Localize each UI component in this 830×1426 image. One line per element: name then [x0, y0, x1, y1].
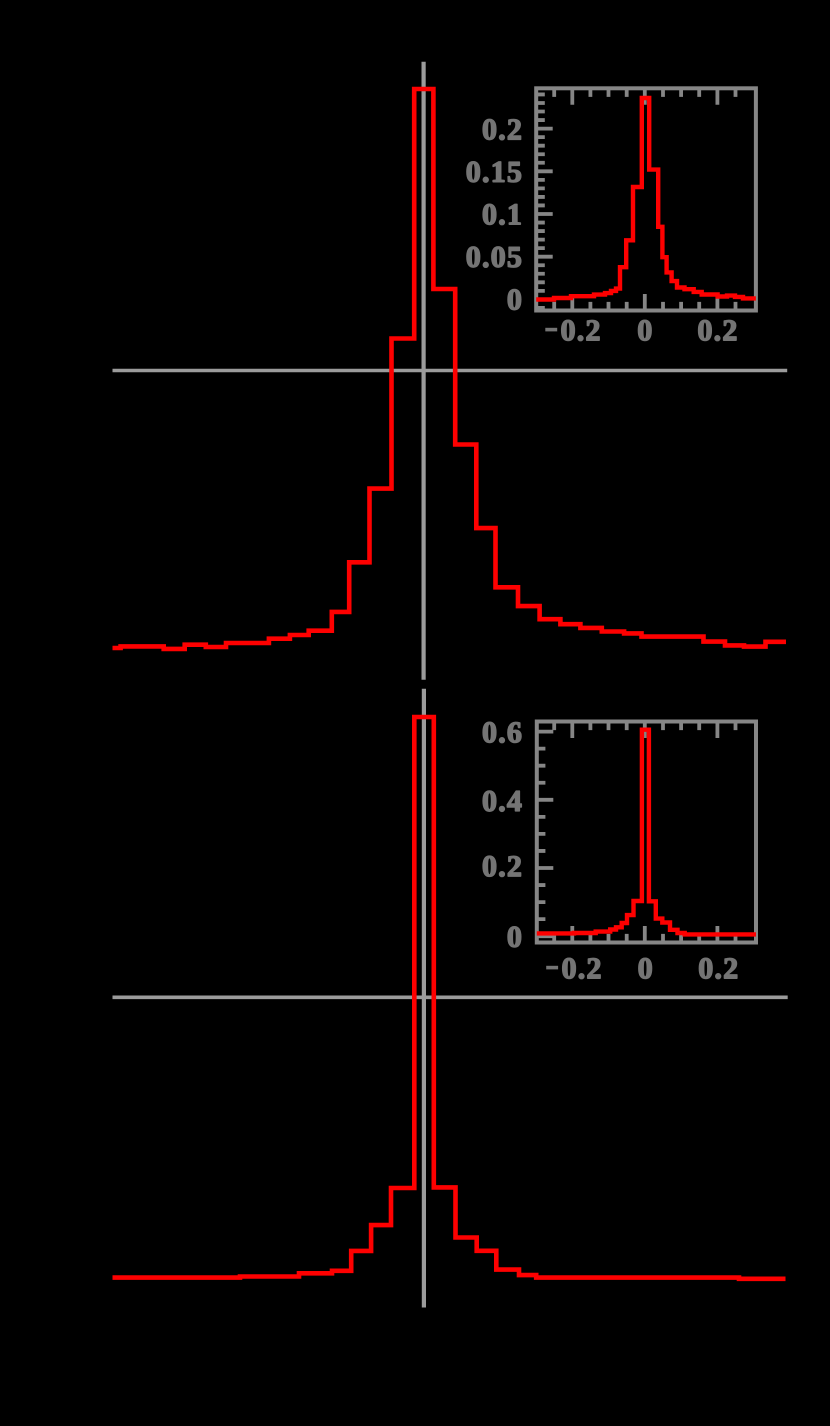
top inset y axis labels	[483, 119, 496, 139]
bottom inset ticks	[537, 722, 736, 943]
bottom panel vertical center line	[422, 689, 426, 1308]
top inset frame	[536, 88, 756, 310]
top inset red histogram	[536, 98, 756, 300]
top panel vertical center line	[422, 62, 426, 680]
bottom inset y axis labels	[483, 722, 496, 742]
top panel red histogram	[113, 89, 787, 649]
bottom panel horizontal zero line	[113, 995, 788, 999]
bottom panel red histogram	[113, 717, 786, 1279]
bottom inset frame	[537, 722, 756, 943]
top inset ticks	[536, 88, 735, 310]
bottom inset x axis labels	[546, 966, 558, 970]
top panel horizontal zero line	[113, 369, 788, 373]
bottom inset red histogram	[537, 730, 756, 935]
top inset x axis labels	[545, 328, 557, 332]
